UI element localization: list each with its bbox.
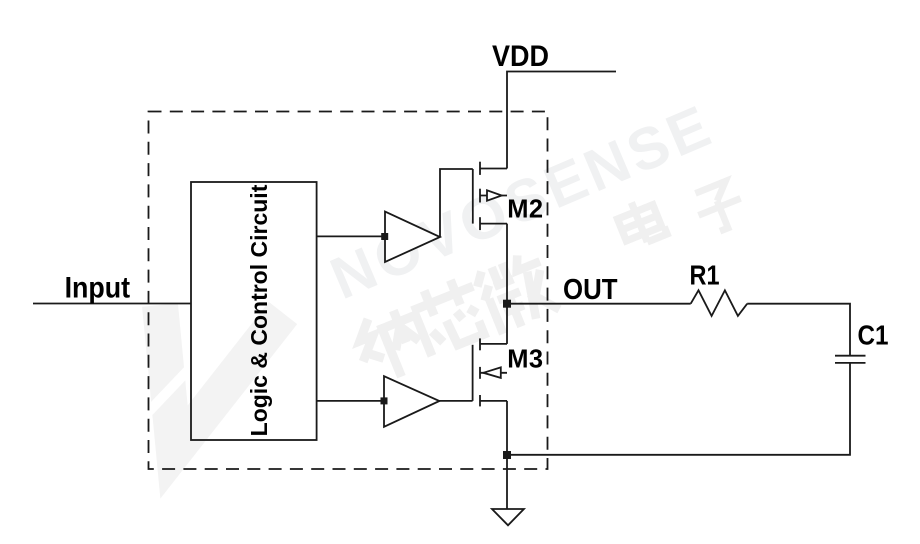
capacitor C1 plates	[835, 355, 866, 357]
wire Input	[33, 303, 191, 305]
node bottom junction dot	[503, 451, 511, 459]
svg-text:Input: Input	[65, 272, 131, 305]
buffer U2 (bottom gate driver)	[384, 376, 439, 427]
ground symbol	[492, 509, 524, 525]
watermark logo N	[136, 305, 283, 452]
node U1 input dot	[381, 233, 388, 240]
buffer U1 (top gate driver)	[385, 212, 440, 263]
dashed IC boundary	[149, 112, 548, 470]
transistor M2 source wire	[480, 223, 507, 225]
wire logic to buffer U1	[317, 235, 385, 237]
transistor M2 gate bar	[472, 169, 474, 224]
resistor R1	[691, 290, 748, 316]
wire VDD rail	[507, 72, 616, 169]
transistor M2 channel segments	[479, 162, 481, 175]
block logic & control circuit	[191, 182, 317, 440]
transistor M2 body arrow (PMOS)	[487, 190, 502, 200]
svg-text:Logic & Control Circuit: Logic & Control Circuit	[246, 184, 272, 436]
svg-text:VDD: VDD	[492, 40, 549, 73]
node U2 input dot	[381, 397, 388, 404]
svg-text:R1: R1	[690, 260, 720, 291]
wire C1 to bottom rail	[507, 363, 850, 455]
svg-text:OUT: OUT	[563, 274, 618, 306]
transistor M3 drain wire	[480, 343, 507, 345]
watermark glyph wei	[472, 248, 560, 336]
svg-text:M3: M3	[507, 345, 543, 373]
transistor M3 body arrow (NMOS)	[483, 367, 501, 378]
watermark glyph na	[349, 302, 435, 388]
wire OUT	[507, 303, 691, 305]
watermark glyph dian	[614, 195, 667, 250]
svg-text:C1: C1	[858, 320, 889, 351]
transistor M3 source wire	[480, 400, 507, 402]
transistor M2 drain wire	[480, 168, 507, 170]
wire logic to buffer U2	[317, 400, 384, 402]
transistor M3 channel segments	[479, 338, 481, 350]
watermark glyph zi	[690, 178, 749, 236]
wire ground stem	[506, 455, 508, 509]
transistor M3 body wire	[480, 372, 507, 374]
watermark glyph xin	[407, 273, 492, 356]
wire R1 to C1	[747, 304, 850, 356]
wire M2 source to OUT node	[506, 224, 508, 344]
wire U1 output to M2 gate	[440, 169, 473, 237]
svg-text:M2: M2	[507, 195, 543, 223]
transistor M2 body wire	[480, 195, 507, 197]
wire U2 output to M3 gate	[439, 400, 472, 402]
node OUT junction dot	[503, 300, 511, 308]
wire M3 source to bottom node	[506, 401, 508, 455]
transistor M3 gate bar	[472, 345, 474, 401]
